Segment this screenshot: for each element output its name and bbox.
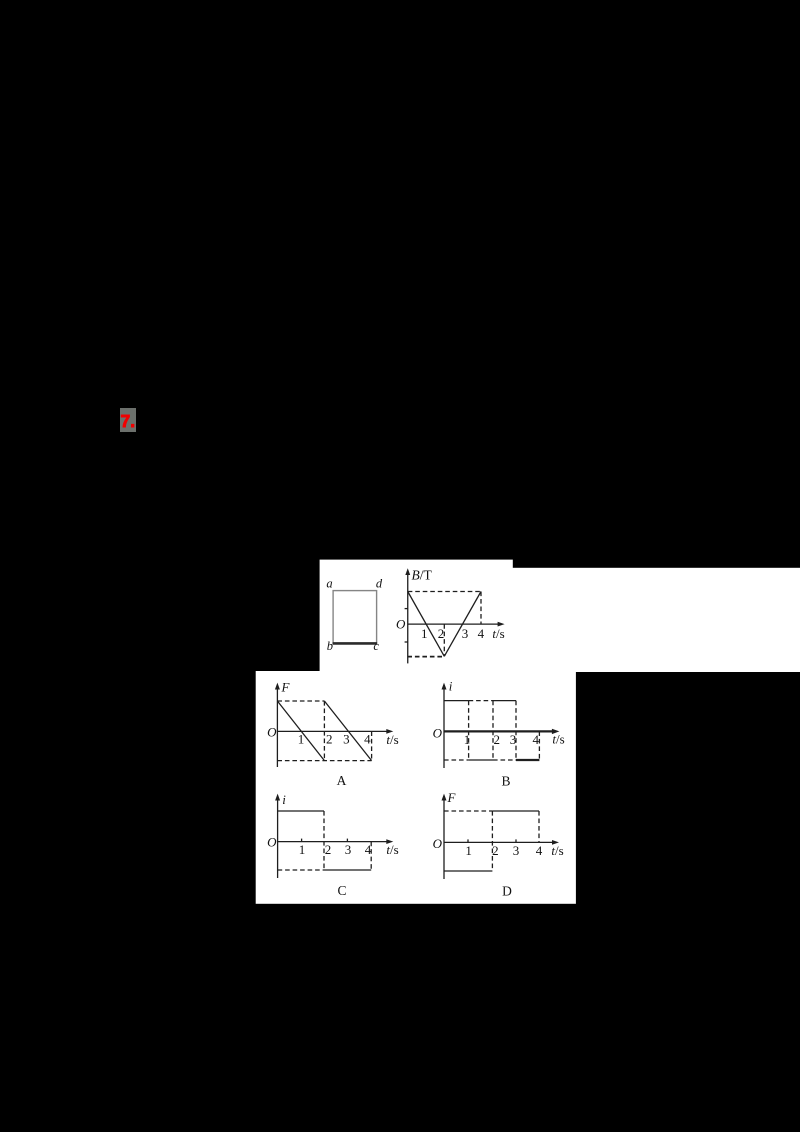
svg-text:4: 4 bbox=[364, 732, 371, 747]
C dashed vertical at t=4 bbox=[370, 842, 372, 870]
svg-text:t/s: t/s bbox=[386, 842, 398, 857]
B(option) top solid segment 2-3 bbox=[493, 700, 516, 702]
square loop abcd bbox=[333, 591, 377, 644]
white panel top-left part bbox=[320, 560, 513, 672]
white panel bottom part bbox=[256, 671, 576, 904]
svg-text:d: d bbox=[376, 577, 383, 591]
B graph y-axis arrowhead bbox=[405, 568, 410, 575]
A bottom dashed level line bbox=[277, 760, 371, 762]
B curve ascending segment bbox=[444, 592, 481, 657]
B graph x-axis arrowhead bbox=[498, 622, 505, 627]
svg-text:4: 4 bbox=[365, 842, 372, 857]
svg-text:3: 3 bbox=[343, 732, 350, 747]
svg-text:B: B bbox=[501, 774, 510, 789]
svg-text:O: O bbox=[267, 835, 277, 850]
svg-text:1: 1 bbox=[465, 843, 472, 858]
svg-text:F: F bbox=[281, 679, 291, 694]
C y-axis arrowhead bbox=[275, 794, 280, 801]
svg-text:2: 2 bbox=[438, 626, 445, 641]
svg-text:i: i bbox=[282, 792, 286, 807]
B graph y-axis tick +B/2 bbox=[405, 608, 408, 610]
D bottom solid segment 0-2 bbox=[444, 870, 492, 872]
svg-text:3: 3 bbox=[510, 732, 517, 747]
svg-text:b: b bbox=[327, 639, 333, 653]
A x-axis arrowhead bbox=[386, 729, 393, 734]
B(option) dashed vertical at t=2 bbox=[492, 701, 494, 760]
C bottom dashed segment 0-2 bbox=[278, 869, 324, 871]
B graph top dashed level line bbox=[408, 591, 481, 593]
svg-text:7.: 7. bbox=[121, 411, 136, 431]
svg-text:F: F bbox=[447, 790, 457, 805]
B graph dashed vertical at t=2 bbox=[443, 624, 445, 656]
B graph bottom dashed level line bbox=[407, 656, 444, 658]
B(option) bold x-axis bbox=[444, 730, 555, 732]
B(option) top solid segment 0-1 bbox=[444, 700, 469, 702]
svg-text:1: 1 bbox=[421, 626, 428, 641]
B(option) bottom dashed segment 0-1 bbox=[444, 759, 469, 761]
svg-text:O: O bbox=[396, 616, 406, 631]
D axis tick at t=3 bbox=[515, 839, 517, 842]
B(option) top dashed segment 1-2 bbox=[469, 700, 493, 702]
D x-axis bbox=[444, 841, 555, 843]
svg-text:2: 2 bbox=[493, 732, 500, 747]
D x-axis arrowhead bbox=[552, 840, 559, 845]
B(option) dashed vertical at t=4 bbox=[538, 731, 540, 760]
B(option) dashed vertical at t=3 bbox=[515, 701, 517, 760]
C bottom solid segment 2-4 bbox=[324, 869, 371, 871]
C dashed vertical at t=2 bbox=[323, 811, 325, 870]
svg-text:t/s: t/s bbox=[551, 843, 563, 858]
D axis tick at t=1 bbox=[467, 839, 469, 842]
svg-text:A: A bbox=[337, 773, 347, 788]
D y-axis bbox=[443, 796, 445, 879]
A y-axis bbox=[276, 685, 278, 767]
D top solid segment 2-4 bbox=[492, 810, 539, 812]
A y-axis arrowhead bbox=[275, 683, 280, 690]
svg-text:c: c bbox=[373, 639, 379, 653]
B graph y-axis tick -B/2 bbox=[405, 641, 408, 643]
A dashed vertical at t=2 bbox=[323, 701, 325, 761]
D top dashed segment 0-2 bbox=[444, 810, 492, 812]
svg-text:1: 1 bbox=[464, 732, 471, 747]
white panel top-right part bbox=[512, 568, 800, 672]
B(option) y-axis bbox=[443, 685, 445, 768]
svg-text:O: O bbox=[433, 725, 443, 740]
svg-text:4: 4 bbox=[533, 732, 540, 747]
B graph x-axis bbox=[408, 623, 501, 625]
svg-text:a: a bbox=[326, 577, 332, 591]
svg-text:C: C bbox=[337, 883, 346, 898]
svg-text:1: 1 bbox=[299, 842, 306, 857]
B curve descending segment bbox=[408, 592, 445, 657]
B graph y-axis bbox=[407, 571, 409, 664]
A top dashed level line bbox=[277, 700, 324, 702]
D y-axis arrowhead bbox=[442, 794, 447, 801]
svg-text:4: 4 bbox=[478, 626, 485, 641]
svg-text:3: 3 bbox=[513, 843, 520, 858]
C top solid segment 0-2 bbox=[278, 810, 324, 812]
C axis tick at t=3 bbox=[346, 839, 348, 842]
svg-text:3: 3 bbox=[345, 842, 352, 857]
B(option) y-axis arrowhead bbox=[442, 683, 447, 690]
svg-text:1: 1 bbox=[298, 732, 305, 747]
svg-text:O: O bbox=[267, 724, 277, 739]
svg-text:i: i bbox=[449, 678, 453, 693]
A dashed vertical at t=4 bbox=[371, 731, 373, 760]
svg-text:t/s: t/s bbox=[386, 732, 398, 747]
bold bottom edge bc bbox=[333, 642, 378, 645]
B(option) dashed vertical at t=1 bbox=[468, 701, 470, 760]
A x-axis bbox=[277, 730, 389, 732]
red question badge bbox=[120, 408, 136, 432]
A sawtooth segment 1 bbox=[277, 701, 324, 761]
C y-axis bbox=[277, 796, 279, 878]
D dashed vertical at t=4 bbox=[538, 811, 540, 842]
B(option) bottom dashed segment 2-3 bbox=[493, 759, 516, 761]
svg-text:3: 3 bbox=[462, 626, 469, 641]
B(option) bottom bold solid segment 3-4 bbox=[516, 759, 539, 761]
svg-text:O: O bbox=[433, 836, 443, 851]
svg-text:B/T: B/T bbox=[412, 568, 433, 583]
C axis tick at t=1 bbox=[301, 839, 303, 842]
D dashed vertical at t=2 bbox=[491, 811, 493, 871]
C x-axis arrowhead bbox=[386, 839, 393, 844]
svg-text:D: D bbox=[502, 884, 512, 899]
svg-text:t/s: t/s bbox=[492, 626, 504, 641]
svg-text:2: 2 bbox=[325, 842, 332, 857]
B graph dashed vertical at t=4 bbox=[480, 592, 482, 625]
B(option) x-axis arrowhead bbox=[552, 729, 560, 734]
svg-text:t/s: t/s bbox=[552, 732, 564, 747]
svg-text:2: 2 bbox=[326, 732, 333, 747]
A sawtooth segment 2 bbox=[324, 701, 371, 761]
B(option) bottom solid segment 1-2 bbox=[469, 759, 493, 761]
C x-axis bbox=[278, 841, 390, 843]
svg-text:4: 4 bbox=[536, 843, 543, 858]
svg-text:2: 2 bbox=[492, 843, 499, 858]
